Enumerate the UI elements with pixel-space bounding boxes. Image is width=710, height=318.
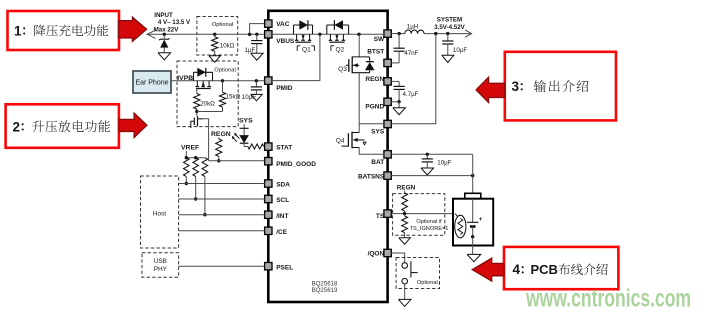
capacitor 4.7uF REGN: [391, 80, 399, 82]
wire SCL: [179, 198, 265, 200]
svg-text:SYS: SYS: [371, 128, 385, 135]
callout box 3: [505, 52, 616, 121]
resistor pullup SDA: [184, 158, 190, 177]
wire 15k to 20k bottom: [197, 111, 223, 113]
svg-text:www.cntronics.com: www.cntronics.com: [525, 285, 691, 313]
resistor 20k: [196, 89, 198, 94]
ground BAT cap: [421, 168, 434, 175]
wire LED to resistor: [243, 143, 245, 146]
svg-text:Q1: Q1: [302, 47, 311, 54]
svg-text:Optional: Optional: [212, 22, 234, 28]
pin REGN: [384, 78, 391, 85]
resistor STAT: [244, 146, 248, 148]
junction BAT cap: [426, 153, 429, 156]
svg-text:USB: USB: [154, 258, 167, 265]
transistor Q3: [346, 64, 349, 66]
svg-text:SDA: SDA: [276, 182, 290, 189]
pin BATSNS: [384, 172, 391, 179]
wire BATSNS out: [391, 175, 472, 177]
junction battery negative: [471, 235, 474, 238]
ground battery: [467, 254, 481, 261]
wire inductor to SYSTEM: [424, 33, 471, 35]
svg-text:PMID_GOOD: PMID_GOOD: [276, 161, 316, 168]
svg-text:SCL: SCL: [276, 197, 289, 204]
junction VREF 2: [194, 156, 197, 159]
pin PMID: [265, 77, 272, 84]
svg-text:1µH: 1µH: [407, 24, 418, 31]
svg-text:PSEL: PSEL: [276, 264, 293, 271]
pin /CE: [265, 227, 272, 234]
svg-text:VBUS: VBUS: [276, 38, 295, 45]
pin SW: [384, 30, 391, 37]
wire SDA: [179, 183, 265, 185]
wire Q3 to SYS: [359, 73, 384, 124]
pin SCL: [265, 195, 272, 202]
optional box boost FET: [177, 61, 238, 127]
wire PMID_GOOD line: [209, 160, 265, 162]
svg-text:STAT: STAT: [276, 145, 292, 152]
svg-text:3: 3: [512, 79, 520, 94]
pin /QON: [384, 249, 391, 256]
junction SYSTEM node: [434, 32, 437, 35]
ground PMID cap: [251, 94, 263, 100]
svg-text:3.5V-4.52V: 3.5V-4.52V: [434, 24, 465, 31]
wire TS out: [391, 213, 455, 215]
wire Q4 to BAT: [358, 124, 360, 133]
svg-text:PHY: PHY: [154, 266, 168, 273]
wire SW out: [391, 33, 405, 35]
wire switch to ground: [404, 284, 406, 299]
junction SCL: [194, 197, 197, 200]
LED D2: [243, 124, 245, 135]
junction TVS: [163, 33, 166, 36]
pushbutton switch: [402, 263, 408, 269]
optional box pushbutton: [396, 258, 439, 289]
svg-text:TS: TS: [376, 213, 385, 220]
junction 20k bottom: [195, 110, 198, 113]
wire input to VBUS: [147, 33, 264, 35]
battery pack: [465, 193, 481, 198]
svg-text:10kΩ: 10kΩ: [220, 43, 235, 50]
svg-text:PGND: PGND: [365, 104, 384, 111]
svg-text:Optional if: Optional if: [416, 219, 442, 225]
wire battery to ground: [472, 237, 474, 255]
svg-text:REGN: REGN: [365, 76, 384, 83]
body diode boost FET: [194, 71, 213, 73]
junction REGN resistor: [217, 159, 220, 162]
wire PSEL: [179, 265, 265, 267]
svg-text:Ear Phone: Ear Phone: [135, 80, 168, 87]
capacitor 10uF PMID: [255, 81, 257, 87]
svg-text:PMID: PMID: [276, 85, 293, 92]
resistor RT2: [404, 214, 406, 216]
callout box 2: [6, 104, 119, 148]
callout arrow 1: [119, 17, 147, 41]
wire BAT down to battery: [472, 154, 474, 193]
ground TVS: [158, 53, 171, 60]
svg-text:Q2: Q2: [336, 47, 345, 54]
wire BAT out: [391, 153, 472, 155]
junction SDA: [185, 182, 188, 185]
ground PGND: [398, 102, 400, 108]
ground TS divider: [399, 238, 411, 244]
junction C-1uF: [255, 33, 258, 36]
junction 47nF: [397, 32, 400, 35]
wire small FET to PMID_GOOD line: [203, 119, 209, 161]
pin SYS: [384, 120, 391, 127]
USB PHY box: [142, 253, 179, 277]
svg-text:Host: Host: [153, 211, 166, 218]
svg-text:VAC: VAC: [276, 21, 290, 28]
junction 10k: [213, 33, 216, 36]
junction system cap: [446, 32, 449, 35]
input arrowhead: [147, 30, 155, 38]
transistor Q1: [294, 24, 313, 26]
svg-text:Max 22V: Max 22V: [154, 27, 180, 34]
svg-text:TS_IGNORE=1: TS_IGNORE=1: [410, 226, 449, 232]
junction PMID cap: [255, 79, 258, 82]
wire INT: [179, 214, 265, 216]
ground 10k: [209, 56, 221, 62]
inductor L1 1uH: [405, 30, 424, 34]
pin TS: [384, 210, 391, 217]
junction Q1-Q2 midpoint: [318, 33, 321, 36]
wire internal VBUS rail: [272, 33, 384, 35]
svg-text:10µF: 10µF: [453, 47, 467, 54]
callout arrow 3: [476, 77, 505, 102]
ground 1uF: [251, 53, 264, 60]
svg-text:4.7µF: 4.7µF: [403, 91, 419, 98]
svg-text:BTST: BTST: [367, 48, 384, 55]
svg-text:PCB: PCB: [531, 262, 558, 277]
junction VREF 1: [185, 156, 188, 159]
wire earphone to PMID: [171, 80, 265, 82]
junction INT: [203, 213, 206, 216]
resistor 15k: [222, 81, 224, 93]
svg-text:BQ25619: BQ25619: [312, 287, 338, 294]
Ear Phone box: [133, 71, 171, 93]
svg-text:SW: SW: [374, 36, 385, 43]
capacitor 10uF BAT: [426, 154, 428, 159]
callout arrow 2: [119, 113, 147, 138]
svg-text:Q3: Q3: [338, 66, 347, 73]
system output arrowhead: [465, 30, 472, 37]
wire PGND out: [391, 101, 399, 103]
resistor pullup INT: [202, 158, 208, 177]
wire SYS rail down: [391, 34, 436, 124]
svg-text:+: +: [479, 216, 483, 223]
pin STAT: [265, 143, 272, 150]
pin SDA: [265, 180, 272, 187]
svg-text:1: 1: [14, 23, 22, 38]
svg-text:BATSNS: BATSNS: [358, 174, 385, 181]
pin /INT: [265, 211, 272, 218]
wire CE: [179, 230, 265, 232]
junction BATSNS: [471, 174, 474, 177]
resistor 10k: [214, 34, 216, 37]
Host box: [141, 176, 179, 248]
TVS diode D1: [163, 34, 165, 38]
wire QON out: [391, 253, 404, 263]
capacitor 1uF: [256, 34, 258, 40]
svg-text:INPUT: INPUT: [154, 12, 173, 19]
svg-text:/QON: /QON: [368, 251, 385, 258]
svg-text:REGN: REGN: [211, 131, 231, 138]
svg-text:Optional: Optional: [214, 68, 236, 74]
transistor Q2: [327, 24, 349, 26]
svg-text:Q4: Q4: [336, 138, 345, 145]
transistor Q4: [342, 145, 349, 147]
svg-text:/CE: /CE: [276, 229, 288, 236]
wire rail to Q3: [358, 34, 360, 57]
svg-text:SYSTEM: SYSTEM: [437, 17, 462, 24]
pin PGND: [384, 98, 391, 105]
junction TS: [403, 212, 406, 215]
callout box 4: [504, 247, 618, 289]
wire VREF node: [185, 151, 187, 158]
optional box R 10k: [197, 17, 238, 56]
svg-text:BAT: BAT: [371, 159, 384, 166]
pin VAC: [265, 20, 272, 27]
svg-text:2: 2: [13, 119, 21, 134]
capacitor 10uF system: [447, 34, 449, 41]
battery cell symbol: [472, 199, 474, 223]
svg-text:10µF: 10µF: [437, 159, 451, 166]
pin PMID_GOOD: [265, 158, 272, 165]
svg-text:REGN: REGN: [397, 185, 416, 192]
callout box 1: [8, 11, 120, 50]
junction SW internal: [357, 33, 360, 36]
transistor small FET: [196, 112, 198, 117]
transistor boost PFET: [196, 81, 198, 87]
svg-text:Optional: Optional: [417, 280, 438, 286]
junction VAC branch: [248, 33, 251, 36]
pin BAT: [384, 151, 391, 158]
pin VBUS: [265, 31, 272, 38]
thermistor: [455, 215, 466, 238]
svg-text:4 V– 13.5 V: 4 V– 13.5 V: [158, 19, 191, 26]
ground pushbutton: [398, 299, 411, 306]
svg-text:SYS: SYS: [239, 118, 253, 125]
resistor pullup SCL: [193, 158, 199, 177]
op-amp U1: BQ25618/BQ25619 charger IC body: [268, 11, 387, 302]
wire VAC branch: [250, 24, 265, 35]
pin BTST: [384, 59, 391, 66]
svg-text:20kΩ: 20kΩ: [200, 101, 215, 108]
svg-text:15kΩ: 15kΩ: [226, 93, 241, 100]
pin PSEL: [265, 263, 272, 270]
capacitor 47nF: [398, 34, 400, 49]
junction 15k top: [221, 79, 224, 82]
svg-text:47nF: 47nF: [404, 50, 418, 57]
svg-text:/INT: /INT: [276, 213, 288, 220]
wire midpoint to PMID: [272, 34, 320, 80]
resistor REGN pulldown: [218, 137, 220, 139]
callout arrow 4: [472, 258, 504, 281]
junction PGND: [397, 100, 400, 103]
resistor RT1: [404, 191, 406, 193]
ground system cap: [442, 55, 454, 62]
optional box TS divider: [393, 194, 445, 236]
svg-text:4: 4: [513, 262, 521, 277]
svg-text:VREF: VREF: [181, 145, 199, 152]
